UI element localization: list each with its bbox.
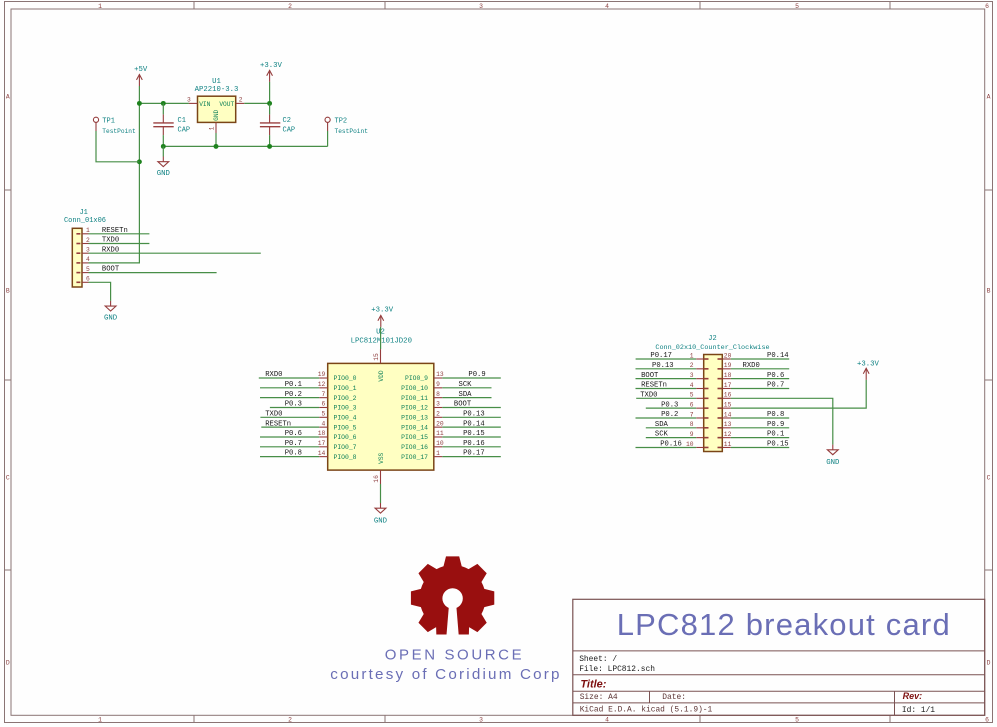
- wire J2 left row 8 (SDA): [646, 427, 696, 429]
- junction VOUT / +3.3V: [267, 101, 272, 106]
- svg-text:2: 2: [86, 237, 90, 244]
- svg-text:PIO0_12: PIO0_12: [401, 405, 428, 412]
- power symbol +3.3V (J2): [857, 361, 880, 380]
- net label TXD0 (J1): [102, 237, 119, 245]
- svg-text:A: A: [6, 93, 10, 100]
- svg-text:5: 5: [795, 717, 799, 724]
- svg-text:6: 6: [985, 717, 989, 724]
- net label TXD0 (J2 pin 5): [640, 391, 657, 399]
- svg-text:2: 2: [690, 362, 694, 369]
- svg-text:RXD0: RXD0: [743, 362, 760, 370]
- svg-text:16: 16: [373, 475, 380, 483]
- net label P0.14 (U2 right row 6): [463, 420, 485, 428]
- svg-text:12: 12: [318, 381, 326, 388]
- svg-text:1: 1: [436, 450, 440, 457]
- svg-text:18: 18: [318, 430, 326, 437]
- svg-text:Id: 1/1: Id: 1/1: [902, 706, 935, 715]
- wire +3.3V stem at U1: [269, 82, 271, 104]
- svg-text:Date:: Date:: [662, 693, 686, 702]
- U2 pin 12 PIO0_1: [318, 381, 357, 392]
- svg-text:PIO0_9: PIO0_9: [405, 375, 428, 382]
- wire GND rail: [163, 145, 327, 147]
- net label P0.13 (J2 pin 2): [652, 362, 674, 370]
- svg-text:P0.9: P0.9: [468, 371, 485, 379]
- svg-text:P0.7: P0.7: [767, 382, 784, 390]
- svg-text:Conn_02x10_Counter_Clockwise: Conn_02x10_Counter_Clockwise: [655, 344, 769, 352]
- svg-text:PIO0_1: PIO0_1: [334, 385, 357, 392]
- wire C2 top pin: [269, 103, 271, 114]
- svg-text:PIO0_14: PIO0_14: [401, 424, 428, 431]
- test point TP1: [93, 117, 136, 135]
- ground J2 GND: [826, 445, 840, 467]
- svg-text:4: 4: [605, 717, 609, 724]
- svg-text:C: C: [987, 474, 991, 481]
- net label P0.3 (J2 pin 6): [661, 401, 678, 409]
- net label RXD0 (J1): [102, 246, 119, 254]
- wire J2 right row 3 (P0.6): [731, 378, 789, 380]
- wire J2 left row 4 (RESETn): [636, 387, 697, 389]
- power symbol +5V: [134, 66, 148, 86]
- sheet info: [579, 655, 935, 715]
- svg-text:+3.3V: +3.3V: [371, 306, 394, 314]
- net label P0.1 (U2 left row 2): [285, 381, 302, 389]
- wire J1-3 RXD0: [89, 252, 261, 254]
- svg-text:2: 2: [436, 411, 440, 418]
- connector J1 Conn_01x06: [64, 209, 106, 287]
- svg-text:14: 14: [724, 411, 732, 418]
- svg-text:PIO0_6: PIO0_6: [334, 434, 357, 441]
- power symbol +3.3V (U2 VDD): [371, 306, 394, 327]
- U2 pin 19 PIO0_0: [318, 371, 357, 382]
- wire J2 right row 1 (P0.14): [731, 358, 789, 360]
- wire J1-1 RESETn: [89, 233, 150, 235]
- svg-text:B: B: [6, 287, 10, 294]
- svg-text:16: 16: [724, 392, 732, 399]
- svg-text:P0.14: P0.14: [767, 352, 789, 360]
- J2 pin 11: [722, 441, 731, 448]
- svg-text:P0.16: P0.16: [660, 441, 682, 449]
- U1 pin 1 GND: [208, 122, 216, 133]
- wire J1-2 TXD0: [89, 243, 150, 245]
- svg-text:17: 17: [318, 440, 326, 447]
- svg-text:14: 14: [318, 450, 326, 457]
- svg-text:TP2: TP2: [335, 117, 348, 125]
- U2 pin 13 PIO0_9: [405, 371, 444, 382]
- svg-text:9: 9: [690, 431, 694, 438]
- U2 pin 9 PIO0_10: [401, 381, 442, 392]
- net label SCK (U2 right row 2): [459, 381, 473, 389]
- net label P0.6 (U2 left row 7): [285, 430, 302, 438]
- wire +5V to U1 VIN: [139, 102, 189, 104]
- wire U2 PIO0_13 stub: [442, 416, 501, 418]
- net label RXD0 (J2 pin 19): [743, 362, 760, 370]
- wire U2 PIO0_7 stub: [260, 446, 319, 448]
- svg-text:P0.17: P0.17: [463, 450, 485, 458]
- wire U2 PIO0_3 stub: [270, 406, 319, 408]
- svg-text:4: 4: [86, 256, 90, 263]
- svg-text:7: 7: [690, 411, 694, 418]
- wire J2 left row 7 (P0.2): [636, 417, 697, 419]
- svg-text:P0.3: P0.3: [285, 401, 302, 409]
- svg-text:U1: U1: [212, 78, 221, 86]
- svg-text:GND: GND: [104, 315, 118, 323]
- U2 pin 11 PIO0_15: [401, 430, 444, 441]
- svg-text:P0.8: P0.8: [285, 450, 302, 458]
- net label P0.7 (U2 left row 8): [285, 440, 302, 448]
- junction U1 GND: [214, 144, 219, 149]
- svg-text:11: 11: [724, 441, 732, 448]
- svg-text:P0.1: P0.1: [767, 431, 784, 439]
- svg-text:2: 2: [288, 3, 292, 10]
- svg-text:RESETn: RESETn: [641, 382, 667, 390]
- wire U2 PIO0_8 stub: [260, 456, 319, 458]
- svg-text:11: 11: [436, 430, 444, 437]
- svg-text:P0.3: P0.3: [661, 401, 678, 409]
- svg-text:10: 10: [436, 440, 444, 447]
- svg-text:P0.15: P0.15: [463, 430, 485, 438]
- wire J1-5 BOOT: [89, 272, 217, 274]
- J1 pin 5: [82, 266, 90, 273]
- svg-text:SDA: SDA: [655, 421, 669, 429]
- net label RXD0 (U2 left row 1): [265, 371, 282, 379]
- net label P0.2 (U2 left row 3): [285, 391, 302, 399]
- net label RESETn (J2 pin 4): [641, 382, 667, 390]
- svg-text:OPEN SOURCE: OPEN SOURCE: [385, 647, 524, 664]
- svg-text:5: 5: [322, 411, 326, 418]
- J2 pin 3: [690, 372, 704, 379]
- svg-text:PIO0_15: PIO0_15: [401, 434, 428, 441]
- title text LPC812 breakout card: [617, 607, 951, 642]
- net label SCK (J2 pin 9): [655, 431, 669, 439]
- junction C1 top: [161, 101, 166, 106]
- net label P0.9 (U2 right row 1): [468, 371, 485, 379]
- svg-text:TXD0: TXD0: [640, 391, 657, 399]
- svg-text:SCK: SCK: [655, 431, 669, 439]
- net label P0.14 (J2 pin 20): [767, 352, 789, 360]
- svg-text:PIO0_17: PIO0_17: [401, 454, 428, 461]
- svg-text:PIO0_16: PIO0_16: [401, 444, 428, 451]
- wire TP2 down: [327, 131, 329, 146]
- J1 pin 4: [82, 256, 90, 263]
- svg-text:2: 2: [288, 717, 292, 724]
- wire U2 PIO0_6 stub: [260, 436, 319, 438]
- U2 pin 16 VSS: [373, 470, 381, 484]
- svg-text:SDA: SDA: [459, 391, 473, 399]
- wire J2 pin 16 to GND: [731, 398, 833, 444]
- junction +5V / VIN rail: [137, 101, 142, 106]
- wire VOUT to +3.3V: [244, 102, 269, 104]
- wire J2 right row 9 (P0.1): [731, 437, 789, 439]
- svg-text:20: 20: [436, 420, 444, 427]
- svg-text:3: 3: [187, 97, 191, 104]
- svg-text:SCK: SCK: [459, 381, 473, 389]
- svg-text:TestPoint: TestPoint: [335, 128, 369, 135]
- svg-text:Sheet: /: Sheet: /: [579, 655, 617, 664]
- svg-text:4: 4: [605, 3, 609, 10]
- wire U2 PIO0_12 stub: [442, 406, 501, 408]
- J2 pin 16: [722, 392, 731, 399]
- wire U2 PIO0_5 stub: [261, 426, 319, 428]
- net label P0.16 (J2 pin 10): [660, 441, 682, 449]
- svg-text:D: D: [987, 659, 991, 666]
- wire U1 GND to rail: [215, 133, 217, 146]
- svg-text:5: 5: [86, 266, 90, 273]
- svg-text:C1: C1: [178, 117, 186, 125]
- net label P0.6 (J2 pin 18): [767, 372, 784, 380]
- test point TP2: [325, 117, 368, 135]
- svg-text:PIO0_8: PIO0_8: [334, 454, 357, 461]
- svg-text:1: 1: [86, 227, 90, 234]
- ground J1 GND: [104, 301, 118, 323]
- svg-text:TestPoint: TestPoint: [102, 128, 136, 135]
- svg-text:9: 9: [436, 381, 440, 388]
- svg-text:VDD: VDD: [378, 370, 385, 381]
- svg-text:BOOT: BOOT: [454, 401, 472, 409]
- svg-text:P0.7: P0.7: [285, 440, 302, 448]
- svg-text:1: 1: [690, 352, 694, 359]
- capacitor C1: [153, 114, 190, 135]
- U2 pin 17 PIO0_7: [318, 440, 357, 451]
- svg-text:4: 4: [690, 382, 694, 389]
- svg-text:C2: C2: [283, 117, 291, 125]
- svg-text:PIO0_4: PIO0_4: [334, 415, 357, 422]
- svg-text:19: 19: [724, 362, 732, 369]
- J2 pin 15: [722, 402, 731, 409]
- net label P0.8 (J2 pin 14): [767, 411, 784, 419]
- wire C1 top pin: [162, 103, 164, 114]
- U2 pin 6 PIO0_3: [319, 401, 356, 412]
- wire U2 PIO0_14 stub: [442, 426, 501, 428]
- svg-text:+3.3V: +3.3V: [857, 361, 880, 369]
- wire U2 PIO0_17 stub: [442, 456, 501, 458]
- net label BOOT (J1): [102, 266, 120, 274]
- svg-text:6: 6: [86, 276, 90, 283]
- wire J2 left row 6 (P0.3): [646, 407, 696, 409]
- svg-text:TXD0: TXD0: [102, 237, 119, 245]
- svg-text:RXD0: RXD0: [265, 371, 282, 379]
- svg-text:13: 13: [724, 421, 732, 428]
- wire U2 PIO0_0 stub: [259, 377, 319, 379]
- MCU U2 LPC812M101JD20: [328, 329, 434, 470]
- wire C2 bottom pin: [269, 135, 271, 146]
- svg-text:PIO0_3: PIO0_3: [334, 405, 357, 412]
- svg-text:VSS: VSS: [378, 452, 385, 463]
- svg-text:PIO0_5: PIO0_5: [334, 424, 357, 431]
- J1 pin 3: [82, 247, 90, 254]
- svg-text:GND: GND: [826, 459, 840, 467]
- net label P0.8 (U2 left row 9): [285, 450, 302, 458]
- svg-text:CAP: CAP: [178, 126, 191, 134]
- svg-text:Conn_01x06: Conn_01x06: [64, 217, 106, 225]
- U2 pin 8 PIO0_11: [401, 391, 442, 402]
- svg-text:VOUT: VOUT: [219, 101, 234, 108]
- J1 pin 6: [82, 276, 90, 283]
- svg-text:19: 19: [318, 371, 326, 378]
- svg-text:P0.16: P0.16: [463, 440, 485, 448]
- wire J2 left row 3 (BOOT): [636, 378, 697, 380]
- title block: [573, 599, 985, 715]
- svg-text:LPC812M101JD20: LPC812M101JD20: [351, 338, 412, 346]
- svg-text:8: 8: [436, 391, 440, 398]
- J2 pin 19: [722, 362, 731, 369]
- wire U2 PIO0_4 stub: [260, 416, 319, 418]
- svg-text:Size: A4: Size: A4: [580, 693, 618, 702]
- wire GND stem: [162, 146, 164, 156]
- J2 pin 5: [690, 392, 704, 399]
- caption courtesy of Coridium Corp: [330, 666, 561, 683]
- svg-text:1: 1: [98, 717, 102, 724]
- svg-text:J1: J1: [79, 209, 87, 217]
- svg-text:8: 8: [690, 421, 694, 428]
- net label P0.2 (J2 pin 7): [661, 411, 678, 419]
- svg-text:KiCad E.D.A. kicad (5.1.9)-1: KiCad E.D.A. kicad (5.1.9)-1: [580, 705, 713, 714]
- svg-text:2: 2: [239, 97, 243, 104]
- svg-text:Rev:: Rev:: [903, 691, 923, 701]
- net label RESETn (J1): [102, 227, 128, 235]
- net label P0.7 (J2 pin 17): [767, 382, 784, 390]
- svg-text:B: B: [987, 287, 991, 294]
- wire J1-6 to GND: [89, 282, 111, 301]
- U2 pin 5 PIO0_4: [319, 411, 356, 422]
- capacitor C2: [260, 114, 295, 135]
- wire C1 bottom pin: [162, 135, 164, 146]
- net label P0.15 (J2 pin 11): [767, 441, 789, 449]
- svg-text:Title:: Title:: [580, 678, 606, 690]
- svg-text:GND: GND: [374, 517, 388, 525]
- J2 pin 10: [686, 441, 704, 448]
- svg-text:courtesy of Coridium Corp: courtesy of Coridium Corp: [330, 666, 561, 683]
- wire U2 PIO0_9 stub: [442, 377, 501, 379]
- wire U2 PIO0_16 stub: [442, 446, 501, 448]
- svg-text:PIO0_10: PIO0_10: [401, 385, 428, 392]
- svg-text:7: 7: [322, 391, 326, 398]
- svg-text:5: 5: [690, 392, 694, 399]
- svg-text:GND: GND: [157, 170, 171, 178]
- wire J2 right row 7 (P0.8): [731, 417, 789, 419]
- svg-text:BOOT: BOOT: [641, 372, 659, 380]
- svg-text:P0.14: P0.14: [463, 420, 485, 428]
- svg-text:TP1: TP1: [102, 117, 115, 125]
- svg-text:P0.2: P0.2: [285, 391, 302, 399]
- svg-text:4: 4: [322, 420, 326, 427]
- svg-text:5: 5: [795, 3, 799, 10]
- J2 pin 14: [722, 411, 731, 418]
- svg-text:PIO0_13: PIO0_13: [401, 415, 428, 422]
- svg-text:P0.15: P0.15: [767, 441, 789, 449]
- svg-text:6: 6: [690, 402, 694, 409]
- svg-text:20: 20: [724, 352, 732, 359]
- svg-text:P0.9: P0.9: [767, 421, 784, 429]
- wire J2 left row 9 (SCK): [646, 437, 696, 439]
- U2 pin 14 PIO0_8: [318, 450, 357, 461]
- svg-text:RESETn: RESETn: [102, 227, 128, 235]
- wire +5V vertical to J1 pin 4: [89, 86, 140, 263]
- wire U2 PIO0_11 stub: [442, 397, 491, 399]
- svg-text:15: 15: [724, 402, 732, 409]
- wire U2 VDD stem: [380, 327, 382, 349]
- wire J2 right row 2 (RXD0): [731, 368, 789, 370]
- svg-text:P0.13: P0.13: [463, 410, 485, 418]
- svg-text:P0.1: P0.1: [285, 381, 302, 389]
- caption OPEN SOURCE: [385, 647, 524, 664]
- svg-text:12: 12: [724, 431, 732, 438]
- J2 pin 7: [690, 411, 704, 418]
- wire J2 right row 8 (P0.9): [731, 427, 789, 429]
- net label BOOT (U2 right row 4): [454, 401, 472, 409]
- svg-text:3: 3: [436, 401, 440, 408]
- J2 pin 4: [690, 382, 704, 389]
- svg-text:+5V: +5V: [134, 66, 148, 74]
- U1 pin 2 VOUT: [236, 97, 245, 104]
- J2 pin 6: [690, 402, 704, 409]
- svg-text:13: 13: [436, 371, 444, 378]
- J1 pin 2: [82, 237, 90, 244]
- svg-text:VIN: VIN: [199, 101, 210, 108]
- svg-text:P0.17: P0.17: [650, 352, 672, 360]
- U2 pin 18 PIO0_6: [318, 430, 357, 441]
- net label P0.15 (U2 right row 7): [463, 430, 485, 438]
- svg-text:P0.8: P0.8: [767, 411, 784, 419]
- svg-text:15: 15: [373, 353, 380, 361]
- net label TXD0 (U2 left row 5): [265, 410, 282, 418]
- wire J2 left row 5 (TXD0): [636, 397, 696, 399]
- svg-text:C: C: [6, 474, 10, 481]
- wire J2 left row 10 (P0.16): [636, 446, 697, 448]
- wire U2 PIO0_2 stub: [260, 397, 319, 399]
- U2 pin 15 VDD: [373, 349, 381, 363]
- svg-text:17: 17: [724, 382, 732, 389]
- svg-text:A: A: [987, 93, 991, 100]
- connector J2 Conn_02x10_Counter_Clockwise: [655, 335, 769, 452]
- U2 pin 3 PIO0_12: [401, 401, 442, 412]
- net label P0.3 (U2 left row 4): [285, 401, 302, 409]
- svg-text:TXD0: TXD0: [265, 410, 282, 418]
- wire TP1 to +5V rail: [96, 131, 139, 162]
- regulator U1 AP2210-3.3: [195, 78, 239, 123]
- svg-text:3: 3: [479, 3, 483, 10]
- svg-text:18: 18: [724, 372, 732, 379]
- U2 pin 10 PIO0_16: [401, 440, 444, 451]
- net label P0.17 (J2 pin 1): [650, 352, 672, 360]
- power symbol +3.3V (regulator output): [260, 62, 283, 82]
- svg-text:6: 6: [322, 401, 326, 408]
- net label P0.9 (J2 pin 13): [767, 421, 784, 429]
- J2 pin 8: [690, 421, 704, 428]
- svg-text:J2: J2: [708, 335, 716, 343]
- svg-text:10: 10: [686, 441, 694, 448]
- wire U2 PIO0_15 stub: [442, 436, 501, 438]
- J2 pin 12: [722, 431, 731, 438]
- net label P0.17 (U2 right row 9): [463, 450, 485, 458]
- svg-text:LPC812 breakout card: LPC812 breakout card: [617, 607, 951, 642]
- svg-text:3: 3: [479, 717, 483, 724]
- svg-text:3: 3: [690, 372, 694, 379]
- svg-text:RXD0: RXD0: [102, 246, 119, 254]
- svg-text:P0.13: P0.13: [652, 362, 674, 370]
- J1 pin 1: [82, 227, 90, 234]
- wire J2 right row 4 (P0.7): [731, 387, 789, 389]
- U2 pin 1 PIO0_17: [401, 450, 442, 461]
- svg-text:P0.2: P0.2: [661, 411, 678, 419]
- svg-text:1: 1: [98, 3, 102, 10]
- svg-text:PIO0_7: PIO0_7: [334, 444, 357, 451]
- U2 pin 2 PIO0_13: [401, 411, 442, 422]
- svg-text:P0.6: P0.6: [767, 372, 784, 380]
- svg-text:6: 6: [985, 3, 989, 10]
- wire J2 left row 2 (P0.13): [636, 368, 697, 370]
- net label SDA (J2 pin 8): [655, 421, 669, 429]
- U2 pin 4 PIO0_5: [319, 420, 356, 431]
